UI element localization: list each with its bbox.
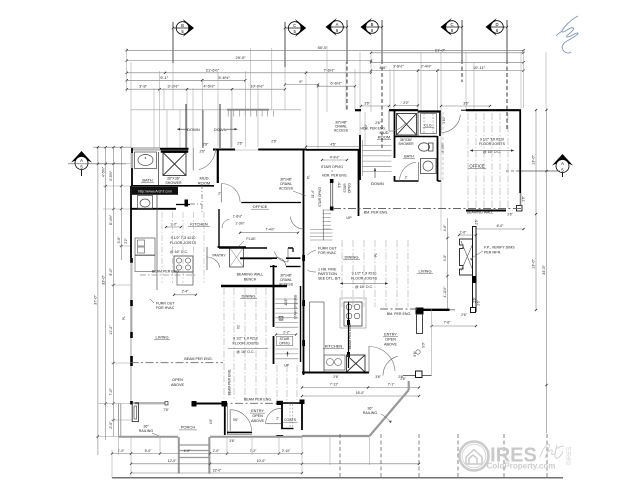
svg-text:OPN'G: OPN'G bbox=[348, 182, 352, 193]
svg-text:1′-3″: 1′-3″ bbox=[170, 223, 177, 227]
svg-text:2′6″: 2′6″ bbox=[473, 296, 477, 302]
label: BM PER ENG (dining top) bbox=[364, 210, 389, 214]
porch: front steps bbox=[179, 437, 210, 474]
label: KITCHEN (right) bbox=[323, 344, 344, 349]
svg-text:BEAM PER ENG.: BEAM PER ENG. bbox=[184, 357, 212, 361]
svg-text:BATH: BATH bbox=[404, 155, 414, 159]
svg-text:16′-0″: 16′-0″ bbox=[356, 391, 365, 395]
section marker A/5 (left side) bbox=[68, 151, 126, 176]
svg-text:FLOOR JOISTS: FLOOR JOISTS bbox=[479, 142, 506, 146]
label: 2'-6 (entry beam) bbox=[461, 296, 476, 316]
svg-text:9′-1″: 9′-1″ bbox=[160, 75, 169, 80]
svg-text:37′-0″: 37′-0″ bbox=[94, 295, 98, 305]
svg-text:FURR OUT: FURR OUT bbox=[156, 302, 175, 306]
extension dashed lines (bottom right) bbox=[340, 434, 547, 478]
svg-text:2′2″: 2′2″ bbox=[403, 101, 409, 105]
svg-text:STAIR OPN'G: STAIR OPN'G bbox=[318, 186, 322, 207]
label: BEARING WALL BENCH bbox=[237, 273, 264, 282]
joists: kitchen dashed bbox=[162, 212, 204, 283]
dimension line 9'-1 bbox=[126, 75, 204, 82]
svg-text:13′-0″: 13′-0″ bbox=[532, 155, 536, 165]
svg-text:12′-0″: 12′-0″ bbox=[168, 459, 177, 463]
svg-text:OPEN: OPEN bbox=[252, 414, 263, 418]
stair: upper staircase (vertical lines and top treads) bbox=[131, 104, 301, 148]
svg-text:5′-6½″: 5′-6½″ bbox=[218, 75, 230, 80]
label: 36x36 SHOWER (upper-left) bbox=[165, 177, 182, 185]
post: porch corner sidelight bbox=[132, 403, 138, 422]
svg-text:LIVING: LIVING bbox=[418, 269, 431, 274]
svg-text:C: C bbox=[293, 23, 296, 28]
svg-text:BEARING WALL: BEARING WALL bbox=[237, 273, 264, 277]
svg-text:DOWN: DOWN bbox=[187, 127, 200, 132]
label: 2'-6 rotated (fp bottom) bbox=[477, 299, 481, 305]
svg-text:OPEN: OPEN bbox=[172, 378, 183, 382]
svg-text:UP: UP bbox=[346, 216, 352, 220]
svg-text:2′6″: 2′6″ bbox=[333, 375, 339, 379]
dimension line 6'-6 1/2 bbox=[317, 81, 356, 88]
dimension line 3'-3 1/2 bbox=[158, 84, 188, 91]
svg-text:2′6″: 2′6″ bbox=[507, 213, 513, 217]
svg-text:PORCH: PORCH bbox=[181, 425, 196, 430]
label: KITCHEN (left) bbox=[188, 222, 210, 227]
svg-text:RAILING: RAILING bbox=[363, 411, 378, 415]
wall: left entry right wall bbox=[225, 404, 228, 435]
label: 3'-6 left entry bbox=[233, 418, 239, 422]
label: BATH (upper-left) bbox=[141, 178, 154, 183]
svg-text:7′-2″: 7′-2″ bbox=[250, 449, 258, 453]
watermark: http://www.ArchT.com black box bbox=[132, 187, 178, 195]
svg-text:BEAM PER ENG.: BEAM PER ENG. bbox=[228, 369, 232, 396]
svg-text:ENTRY: ENTRY bbox=[384, 333, 397, 337]
svg-text:2′6″: 2′6″ bbox=[475, 218, 479, 224]
label: 1'-3 bbox=[165, 223, 182, 229]
svg-text:RAILING: RAILING bbox=[139, 429, 154, 433]
label: dining floor joists bbox=[340, 272, 388, 290]
wall: center stairwell enclosure bbox=[304, 150, 361, 290]
fixture: sink (second unit) bbox=[421, 159, 437, 174]
label: F.P. VERIFY DIMS PER MFR bbox=[470, 246, 515, 261]
svg-text:DINING: DINING bbox=[242, 294, 256, 299]
dimension line 3'-8 bbox=[126, 84, 161, 91]
fixture: kitchen counter and double sink (left) bbox=[135, 209, 157, 290]
door: second unit bath (arc) bbox=[400, 162, 419, 181]
svg-text:BEAM PER ENG.: BEAM PER ENG. bbox=[152, 270, 180, 274]
svg-text:F.P., VERIFY DIMS: F.P., VERIFY DIMS bbox=[484, 246, 515, 250]
beam: BM PER ENG (entry) bbox=[380, 309, 417, 316]
door: left entry door arc bbox=[230, 410, 251, 431]
svg-text:STAIR: STAIR bbox=[343, 183, 347, 193]
label: STAIR OPENING rotated (up stair) bbox=[279, 294, 297, 320]
door: mud room entry (arc) bbox=[193, 148, 216, 171]
label: X2 rotated bbox=[237, 325, 241, 329]
svg-text:4′-9½″: 4′-9½″ bbox=[330, 155, 340, 159]
svg-text:2′-0″: 2′-0″ bbox=[213, 449, 221, 453]
wall: office right/top exterior bbox=[461, 110, 521, 206]
svg-text:2′6″: 2′6″ bbox=[199, 150, 205, 154]
fixture: closet X (right kitchen) bbox=[347, 355, 366, 372]
label: FLUE bbox=[238, 237, 256, 247]
wall: left entry header bbox=[192, 401, 228, 407]
label: UP (up stair) bbox=[284, 363, 290, 367]
svg-text:2′6″: 2′6″ bbox=[477, 299, 481, 305]
label: 2'-6 office bottom bbox=[507, 213, 513, 217]
label: 6'-0 office bbox=[474, 224, 525, 230]
svg-text:FOR HVAC: FOR HVAC bbox=[156, 306, 175, 310]
dimension line 4'-5 1/2 bbox=[186, 84, 233, 91]
svg-text:3′-3½″: 3′-3½″ bbox=[167, 84, 179, 89]
wall: crawl access hatch (double wall) bbox=[240, 258, 301, 267]
dimension line 2'-4 1/2 right bbox=[417, 65, 439, 72]
fixture: fireplace F.P. bbox=[460, 227, 477, 312]
wall: left exterior wall of bath (x=131) bbox=[131, 148, 134, 209]
beam: BM PER ENG dash-dot (dining top) bbox=[333, 208, 521, 210]
dimension line 21'-6 1/2 bbox=[126, 67, 308, 74]
beam: BEAM PER ENG (y=403) bbox=[220, 398, 302, 404]
svg-text:4′-6″: 4′-6″ bbox=[379, 66, 387, 70]
svg-text:30″x48″: 30″x48″ bbox=[280, 178, 292, 182]
fixture: range/stove (right kitchen) bbox=[340, 298, 366, 328]
svg-text:PL: PL bbox=[122, 316, 126, 320]
svg-text:1′-3½″: 1′-3½″ bbox=[235, 222, 245, 226]
label: 1'-6.5 and 7'-4.5 arcs bbox=[222, 215, 299, 234]
svg-text:8′-4½″: 8′-4½″ bbox=[109, 214, 113, 225]
svg-text:3′-5½″: 3′-5½″ bbox=[109, 170, 113, 181]
svg-text:KITCHEN: KITCHEN bbox=[190, 222, 208, 227]
svg-text:ROOM: ROOM bbox=[378, 135, 390, 140]
svg-text:5′0″: 5′0″ bbox=[364, 123, 368, 129]
svg-text:3′-6″: 3′-6″ bbox=[117, 236, 121, 244]
label: 2'-6 rotated office bbox=[522, 195, 526, 201]
svg-text:2′-4½″: 2′-4½″ bbox=[421, 65, 432, 69]
dimension line right upper bbox=[370, 61, 525, 63]
svg-text:6′-0″: 6′-0″ bbox=[497, 224, 505, 228]
wall: office bottom / post bbox=[466, 193, 522, 211]
door: right entry arc bbox=[369, 346, 395, 373]
dimension line 29'-0 bbox=[126, 55, 373, 62]
wall: left exterior kitchen (x=131) bbox=[130, 209, 133, 306]
label: OPEN ABOVE (left) bbox=[171, 378, 185, 387]
fixture: shower 36x36 (second unit) bbox=[397, 114, 417, 136]
svg-text:30″x48″: 30″x48″ bbox=[280, 274, 292, 278]
fixture: island sink (right kitchen) bbox=[324, 355, 345, 370]
svg-text:BM. PER ENG.: BM. PER ENG. bbox=[387, 312, 412, 316]
svg-text:4′-5½″: 4′-5½″ bbox=[203, 84, 215, 89]
svg-text:ABOVE: ABOVE bbox=[171, 383, 185, 387]
svg-text:4′-11½″: 4′-11½″ bbox=[443, 286, 447, 298]
wall: entry bottom (y=375.5) bbox=[403, 371, 432, 378]
svg-text:2′6″: 2′6″ bbox=[271, 140, 277, 144]
fixture: bath sink counter bbox=[135, 152, 157, 169]
wall: left exterior living (x=131) bbox=[130, 306, 133, 405]
svg-text:3′6″: 3′6″ bbox=[364, 102, 370, 106]
dimension line 10'-11 bbox=[436, 65, 524, 72]
label: 2'-6 (upper walls) bbox=[237, 141, 243, 145]
svg-text:UP: UP bbox=[284, 363, 290, 367]
fixture: shower 36x36 (upper-left) bbox=[161, 151, 188, 176]
svg-text:BEARING WALL: BEARING WALL bbox=[467, 210, 494, 214]
svg-text:C: C bbox=[450, 22, 453, 27]
svg-text:FURR OUT: FURR OUT bbox=[318, 247, 337, 251]
label: 2'-4 dim bbox=[173, 290, 197, 296]
label: kitchen floor joists bbox=[170, 236, 197, 254]
svg-text:BM. PER ENG.: BM. PER ENG. bbox=[364, 210, 389, 214]
label: 36 RAILING (left) bbox=[139, 425, 160, 437]
svg-text:3′6″: 3′6″ bbox=[233, 418, 239, 422]
fixture: closet CLG shelving bbox=[421, 114, 437, 134]
svg-text:7′-4½″: 7′-4½″ bbox=[265, 228, 275, 232]
svg-text:B: B bbox=[181, 23, 184, 28]
wall: bath/shower partition bbox=[158, 152, 160, 186]
wall: second-unit bath block bbox=[355, 110, 441, 181]
label: PORCH bbox=[179, 425, 197, 430]
wall: right kitchen bottom (y=372.5) bbox=[302, 372, 369, 374]
svg-text:D: D bbox=[495, 22, 498, 27]
svg-text:4′6″: 4′6″ bbox=[330, 142, 336, 146]
label: 2' (bath door) bbox=[405, 176, 408, 180]
svg-text:9 1/2″ T.JI #210: 9 1/2″ T.JI #210 bbox=[233, 337, 258, 341]
wall: coats closet bbox=[227, 400, 305, 437]
porch: left porch edge bbox=[119, 404, 121, 437]
svg-text:ACCESS: ACCESS bbox=[279, 187, 294, 191]
label: rotated STAIR OPN'G x2 bbox=[311, 181, 352, 207]
section marker B (top right group) bbox=[361, 18, 384, 148]
label: 30x48 crawl access (upper) bbox=[334, 121, 349, 133]
door: coats door arc bbox=[266, 408, 281, 423]
label: DINING (left) bbox=[240, 294, 257, 299]
svg-text:©IRES: ©IRES bbox=[566, 447, 573, 465]
svg-text:2′: 2′ bbox=[276, 417, 279, 421]
svg-text:@ 16″ O.C.: @ 16″ O.C. bbox=[355, 285, 373, 289]
beam: BEAM PER ENG vertical (x=229) bbox=[228, 369, 232, 396]
label: PL marks bbox=[122, 175, 378, 320]
wall: left unit office/mud partition bbox=[176, 184, 301, 212]
label: FURR OUT FOR HVAC (top) bbox=[150, 299, 175, 310]
label: FURR OUT FOR HVAC (mid) bbox=[308, 247, 338, 256]
signature (blue handwriting) bbox=[556, 16, 578, 53]
svg-text:SEE DTL. B/7: SEE DTL. B/7 bbox=[318, 277, 340, 281]
dim: 7'-6 entry bbox=[431, 321, 478, 328]
svg-text:ACCESS: ACCESS bbox=[334, 129, 349, 133]
svg-text:22′-0″: 22′-0″ bbox=[213, 468, 222, 472]
beam: BEAM PER ENG (living) bbox=[131, 357, 224, 363]
svg-text:ACCESS: ACCESS bbox=[279, 283, 294, 287]
label: COATS bbox=[283, 418, 298, 422]
svg-text:7′-11″: 7′-11″ bbox=[330, 383, 339, 387]
fixture: toilet (upper-left bath) bbox=[138, 196, 153, 209]
svg-text:FLOOR JOISTS: FLOOR JOISTS bbox=[170, 241, 197, 245]
label: DINING (right) bbox=[343, 255, 360, 260]
svg-text:OPEN: OPEN bbox=[385, 338, 396, 342]
label: BATH (second unit) bbox=[403, 155, 415, 159]
svg-text:9 1/2″ T.JI #210: 9 1/2″ T.JI #210 bbox=[352, 272, 377, 276]
svg-text:4′0″: 4′0″ bbox=[209, 418, 213, 424]
door: CLG closet arc bbox=[441, 113, 460, 133]
svg-text:2′6″: 2′6″ bbox=[237, 141, 243, 145]
label: 2' coats bbox=[276, 417, 279, 421]
svg-text:9′-0″: 9′-0″ bbox=[109, 268, 113, 276]
svg-text:CRAWL: CRAWL bbox=[280, 182, 292, 186]
label: 1 HR FIRE PARTITION bbox=[308, 268, 341, 281]
svg-text:@ 16″ O.C.: @ 16″ O.C. bbox=[236, 350, 254, 354]
wall: bath bottom (y=186) bbox=[131, 185, 214, 187]
label: 2' office door bbox=[218, 192, 221, 196]
dimension line 7'-6 1/2 bbox=[305, 66, 387, 74]
svg-text:5′-0″: 5′-0″ bbox=[145, 449, 153, 453]
svg-text:ColoProperty.com: ColoProperty.com bbox=[487, 462, 556, 471]
dimension line 21'-0 bbox=[370, 47, 525, 54]
label: STAIR OPN'G / HDR (center) bbox=[321, 165, 347, 178]
svg-text:1′-0″: 1′-0″ bbox=[118, 449, 125, 453]
section marker A/5 (right side) bbox=[506, 154, 573, 177]
wall: toilet room bottom (y=209) bbox=[131, 186, 176, 209]
label: 4'-9.5 dim (stairwell) bbox=[321, 155, 348, 161]
section marker D (top right group) bbox=[486, 18, 509, 130]
svg-text:21′-6½″: 21′-6½″ bbox=[206, 67, 220, 72]
label: 36 RAILING (right) bbox=[363, 407, 392, 424]
label: 1'-6 fireplace bbox=[458, 231, 477, 237]
svg-text:10′-0½″: 10′-0½″ bbox=[250, 84, 264, 89]
svg-text:STAIR OPENING: STAIR OPENING bbox=[294, 294, 298, 319]
dimension extension lines (bottom) bbox=[112, 436, 370, 478]
svg-text:PL: PL bbox=[374, 253, 378, 257]
wall: upper-left block top (y=148) bbox=[131, 148, 307, 151]
svg-text:A: A bbox=[80, 158, 83, 163]
svg-text:11′-4″: 11′-4″ bbox=[311, 189, 315, 198]
label: 2'-6 rotated (fp top) bbox=[475, 218, 479, 224]
svg-text:2′: 2′ bbox=[218, 192, 221, 196]
svg-text:36″: 36″ bbox=[367, 407, 373, 411]
svg-text:ENTRY: ENTRY bbox=[251, 409, 264, 413]
svg-text:CLG.: CLG. bbox=[424, 124, 432, 128]
door: office left entry arc bbox=[221, 184, 240, 203]
svg-text:12′6″: 12′6″ bbox=[284, 298, 288, 306]
svg-text:2′: 2′ bbox=[405, 176, 408, 180]
label: CLG. bbox=[423, 124, 434, 128]
svg-text:ABOVE: ABOVE bbox=[384, 343, 398, 347]
door: office bottom arc bbox=[274, 248, 288, 262]
svg-text:HDR. PER ENG.: HDR. PER ENG. bbox=[322, 173, 347, 177]
label: 11'-4 rotated bbox=[0, 0, 1, 1]
label: office floor joists bbox=[470, 138, 514, 155]
svg-text:3′6″: 3′6″ bbox=[463, 102, 469, 106]
wall: 1-hr fire partition (x=303.5) bbox=[302, 255, 305, 375]
dimension line left inner (9'-0 / 11'-2) bbox=[109, 147, 115, 436]
label: HDR PER ENG (upper) bbox=[361, 127, 386, 131]
svg-text:PANTRY: PANTRY bbox=[212, 254, 226, 258]
svg-text:BATH: BATH bbox=[142, 178, 152, 183]
svg-text:STAIR OPN'G: STAIR OPN'G bbox=[321, 165, 343, 169]
svg-text:DOWN: DOWN bbox=[371, 181, 384, 186]
svg-text:ROOM: ROOM bbox=[198, 180, 210, 185]
dimension line 5'-6 1/2 bbox=[201, 75, 246, 82]
svg-text:1′-6½″: 1′-6½″ bbox=[233, 215, 243, 219]
svg-text:2′-0″: 2′-0″ bbox=[109, 421, 113, 429]
svg-text:4′-0″: 4′-0″ bbox=[443, 254, 447, 261]
dimension line 33'-0 (left vertical) bbox=[101, 147, 107, 440]
svg-text:BENCH: BENCH bbox=[244, 277, 257, 281]
stair: UP stair (left unit) bbox=[274, 265, 301, 364]
svg-text:2′-2″: 2′-2″ bbox=[283, 330, 290, 334]
label: DOWN (left stair) bbox=[177, 127, 200, 132]
svg-text:3′-8″: 3′-8″ bbox=[139, 84, 148, 89]
door: entry door arc (right unit) bbox=[383, 356, 403, 375]
section marker A (top right group) bbox=[326, 18, 349, 110]
label: ENTRY OPEN ABOVE (right) bbox=[383, 333, 398, 347]
svg-text:9 1/2″ TJI #210: 9 1/2″ TJI #210 bbox=[480, 138, 504, 142]
bottom boundary line bbox=[112, 477, 563, 479]
joists: office dash-dot lines bbox=[443, 112, 508, 208]
dimension line 10'-0 1/2 bbox=[231, 84, 286, 91]
stair: second unit DOWN stair bbox=[360, 135, 392, 180]
dim: office 13'-0 ticks bbox=[440, 110, 442, 231]
svg-text:29′-0″: 29′-0″ bbox=[236, 55, 247, 60]
label: left-dining joists bbox=[228, 337, 268, 355]
svg-text:FLOOR JOISTS: FLOOR JOISTS bbox=[351, 276, 378, 280]
label: UP (center) bbox=[346, 216, 352, 220]
svg-text:1′-6″: 1′-6″ bbox=[460, 231, 467, 235]
door: crawl access arc bbox=[291, 217, 304, 230]
label: PANTRY bbox=[212, 254, 226, 258]
label: 4'-6 dim (stairwell top) bbox=[305, 142, 361, 147]
label: 3'-6 (left of shower) bbox=[360, 102, 390, 108]
label: DOWN (right stair) bbox=[214, 127, 238, 132]
door: pantry arc bbox=[207, 257, 220, 268]
svg-text:9′0″: 9′0″ bbox=[422, 341, 426, 347]
svg-text:http://www.ArchT.com: http://www.ArchT.com bbox=[138, 190, 172, 194]
dimension row 2 (bottom) bbox=[130, 459, 420, 465]
watermark: IRES ColoProperty.com logo bbox=[460, 442, 574, 471]
label: LIVING (left) bbox=[154, 335, 170, 340]
svg-text:34′-5″: 34′-5″ bbox=[542, 265, 546, 275]
label: 3'-6 (y=440) bbox=[229, 439, 235, 443]
label: OFFICE (right) bbox=[468, 164, 486, 169]
label: 2'-6 (entry door) bbox=[400, 377, 406, 381]
label: MUD ROOM (second unit) bbox=[377, 130, 391, 140]
label: ENTRY OPEN ABOVE (left) bbox=[250, 409, 265, 423]
svg-text:PARTITION: PARTITION bbox=[318, 272, 337, 276]
dim: right kitchen bottom dims bbox=[301, 375, 420, 397]
stair: center stairwell treads bbox=[310, 179, 334, 240]
svg-text:SHOWER: SHOWER bbox=[165, 181, 182, 185]
label: 30x48 crawl access (mid) bbox=[279, 178, 306, 197]
svg-text:33′-0″: 33′-0″ bbox=[101, 275, 105, 285]
svg-text:4′-6″: 4′-6″ bbox=[443, 224, 447, 231]
railing: diagonal porch railing bbox=[302, 381, 409, 436]
dimension line 3'-6 1/2 right bbox=[370, 65, 419, 72]
joists: dining dash-dot bbox=[342, 240, 408, 307]
label: LIVING (right) bbox=[417, 269, 433, 274]
svg-text:2′6″: 2′6″ bbox=[375, 121, 381, 125]
svg-text:FOR HVAC: FOR HVAC bbox=[318, 251, 337, 255]
dimension line 37'-0 (left vertical) bbox=[94, 147, 100, 455]
label: 3'-6 (top right) bbox=[440, 102, 491, 108]
label: 2'-8 (stair center) bbox=[203, 143, 209, 147]
svg-text:2′8″: 2′8″ bbox=[203, 143, 209, 147]
dimension line left innermost bbox=[117, 147, 123, 260]
svg-text:4′-5½″: 4′-5½″ bbox=[101, 166, 105, 177]
svg-text:DINING: DINING bbox=[345, 255, 359, 260]
dimension extension lines (top) bbox=[127, 48, 546, 150]
dimension line 9in bbox=[284, 80, 319, 86]
dimension line 34'-5 (right vertical) bbox=[542, 108, 548, 433]
label: 36x36 SHOWER (second unit) bbox=[398, 138, 414, 146]
wall: office-left bottom (y=248) bbox=[219, 209, 293, 252]
svg-text:PL: PL bbox=[307, 175, 311, 179]
svg-text:B: B bbox=[280, 316, 282, 320]
svg-text:2′-4″: 2′-4″ bbox=[182, 290, 190, 294]
dim: living right vertical bbox=[443, 218, 449, 311]
porch: front edge (y=436.8) bbox=[119, 436, 303, 438]
